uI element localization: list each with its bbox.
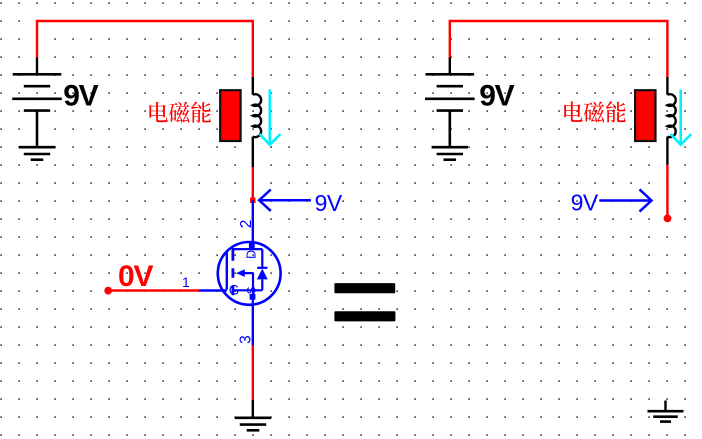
cyan current arrow (right, downward) [671, 90, 692, 145]
junction (source dot inside mosfet) [250, 294, 256, 300]
wire (red, 0V terminal to gate wire) [108, 289, 199, 291]
mosfet Q1 internals [227, 243, 268, 305]
inductor L (left), black lead + 4-loop coil [253, 77, 261, 167]
ground (battery negative) [19, 147, 55, 160]
energy block rectangle (right) [635, 90, 655, 141]
ground (battery negative) [432, 147, 468, 160]
wire (red, top rail right circuit) [450, 21, 668, 77]
equals sign (bottom bar) [334, 311, 395, 321]
terminal 0V (red input dot) [104, 287, 112, 295]
node arrow 9V (right, pointing right at terminal) [599, 189, 651, 211]
wire (battery top lead, black) [36, 58, 38, 75]
floating ground (right) [664, 401, 666, 412]
mosfet body arrow (pointing left) [236, 269, 245, 277]
wire (blue, gate lead pin 1) [200, 289, 227, 291]
svg-text:2: 2 [238, 220, 255, 229]
battery 9V (plates) [12, 74, 62, 146]
wire (blue, drain node to pin 2) [252, 200, 254, 243]
junction (drain dot inside mosfet) [249, 243, 255, 249]
mosfet Q1 (N-channel, circle outline) [218, 242, 281, 305]
svg-text:G: G [229, 282, 240, 297]
svg-text:S: S [246, 286, 258, 294]
wire (battery top lead, black) [449, 58, 451, 75]
wire (red, inductor to open terminal) [666, 165, 668, 217]
wire (red, source to ground) [252, 345, 254, 400]
node arrow 9V (left, pointing left at drain node) [259, 190, 311, 211]
svg-text:9V: 9V [63, 80, 98, 113]
wire (red, top rail left circuit) [37, 21, 253, 77]
svg-text:9V: 9V [479, 80, 514, 113]
svg-text:9V: 9V [571, 190, 599, 216]
battery 9V (plates) [425, 74, 475, 146]
svg-text:3: 3 [237, 335, 254, 344]
terminal node (right, open end red dot) [664, 215, 672, 223]
svg-text:1: 1 [182, 274, 190, 290]
equals sign (top bar) [334, 283, 395, 293]
ground (mosfet source) [235, 418, 271, 431]
svg-text:D: D [244, 250, 258, 259]
junction (drain node, red) [250, 198, 255, 203]
label 电磁能 (right) [564, 101, 626, 122]
wire (red, inductor to drain node) [252, 167, 254, 200]
label 电磁能 (left) [149, 102, 211, 123]
wire (black, ground stub) [252, 400, 254, 418]
mosfet body diode (triangle, cathode up) [257, 269, 268, 280]
wire (blue, pin 3 source lead) [252, 305, 254, 346]
cyan current arrow (left, downward) [260, 90, 281, 145]
energy block rectangle (left) [220, 90, 240, 141]
inductor L (right), black lead + 4-loop coil [667, 77, 675, 165]
svg-text:9V: 9V [315, 190, 343, 216]
svg-text:0V: 0V [118, 260, 153, 293]
